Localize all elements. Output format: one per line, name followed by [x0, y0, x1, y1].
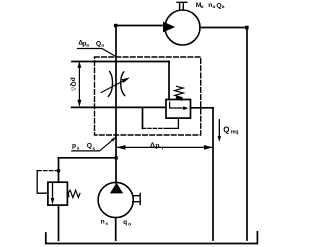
svg-text:q: q — [123, 219, 127, 226]
dashed control-unit box — [95, 57, 201, 135]
leader Δpa Qa — [78, 49, 117, 57]
wire main supply vertical — [115, 26, 117, 183]
svg-text:a: a — [101, 43, 104, 48]
pump shaft — [133, 193, 140, 204]
svg-text:o: o — [128, 222, 131, 227]
svg-text:n: n — [101, 218, 105, 225]
relief internal arrow — [52, 182, 54, 198]
relief spring — [67, 190, 80, 197]
wire pump to tank — [115, 218, 117, 241]
relief valve V2 box — [48, 182, 68, 205]
svg-text:a: a — [213, 5, 216, 10]
dimension Δpr right arrow — [204, 145, 213, 150]
svg-text:pQΔ: pQΔ — [69, 77, 76, 91]
svg-text:p: p — [72, 142, 76, 149]
relief pilot dashed — [37, 170, 58, 172]
dimension pQ bottom arrow — [77, 100, 81, 107]
svg-text:Q: Q — [87, 143, 92, 150]
motor inlet arrow — [163, 22, 175, 33]
label Ma na Qa — [196, 2, 225, 10]
wire control drain down — [212, 108, 214, 240]
svg-text:a: a — [201, 5, 204, 10]
wire motor return down — [246, 28, 248, 241]
dimension Δpr left arrow — [117, 145, 126, 150]
motor U1 circle — [165, 10, 200, 45]
label ps Qs — [72, 142, 95, 151]
label Qreq — [223, 125, 238, 135]
pump P1 circle — [98, 182, 133, 217]
wire compensator input (y=107.4) with extension — [72, 106, 166, 108]
variable orifice arcs — [108, 72, 124, 97]
relief pilot left leg — [37, 171, 48, 194]
svg-text:req: req — [231, 129, 239, 135]
wire compensator output — [191, 107, 214, 109]
node supply top corner — [114, 24, 117, 27]
label ns — [101, 218, 109, 227]
svg-text:a: a — [222, 5, 225, 10]
arrow Qreq — [218, 120, 220, 137]
motor shaft — [177, 2, 187, 10]
wire motor right — [200, 27, 247, 29]
label Δpr — [150, 140, 164, 151]
compensator internal path — [170, 102, 184, 108]
node supply tap — [115, 156, 118, 159]
wire pilot drop to compensator — [168, 62, 170, 100]
svg-text:p: p — [155, 143, 159, 150]
variable orifice arrow — [101, 80, 124, 92]
wire upper pilot (y=61.5) with dimension extension — [72, 61, 169, 63]
dimension pQ line — [78, 63, 80, 105]
svg-text:s: s — [105, 222, 108, 227]
pump outlet arrow — [110, 183, 123, 194]
wire compensator LS pilot loop — [142, 107, 144, 128]
node relief pilot tap — [57, 169, 60, 172]
label qo — [123, 219, 131, 228]
compensator valve V1 box — [166, 100, 191, 119]
leader ps Qs — [72, 138, 116, 151]
compensator spring — [175, 86, 184, 97]
wire motor left — [116, 25, 165, 27]
dimension pQ top arrow — [77, 62, 81, 68]
wire relief drop — [58, 158, 60, 182]
svg-text:a: a — [86, 43, 89, 48]
label ΔpQ rotated — [69, 77, 76, 91]
wire supply tap to relief — [59, 157, 117, 159]
leader ps arrow tip — [111, 137, 116, 141]
svg-text:r: r — [162, 145, 164, 151]
tank reservoir — [46, 232, 258, 244]
wire relief to tank — [58, 205, 60, 240]
svg-text:Q: Q — [223, 125, 229, 134]
dimension Δpr line — [117, 146, 212, 148]
svg-text:Δ: Δ — [150, 140, 155, 149]
node motor outlet corner — [245, 26, 249, 30]
label Δpa Qa — [78, 40, 104, 49]
